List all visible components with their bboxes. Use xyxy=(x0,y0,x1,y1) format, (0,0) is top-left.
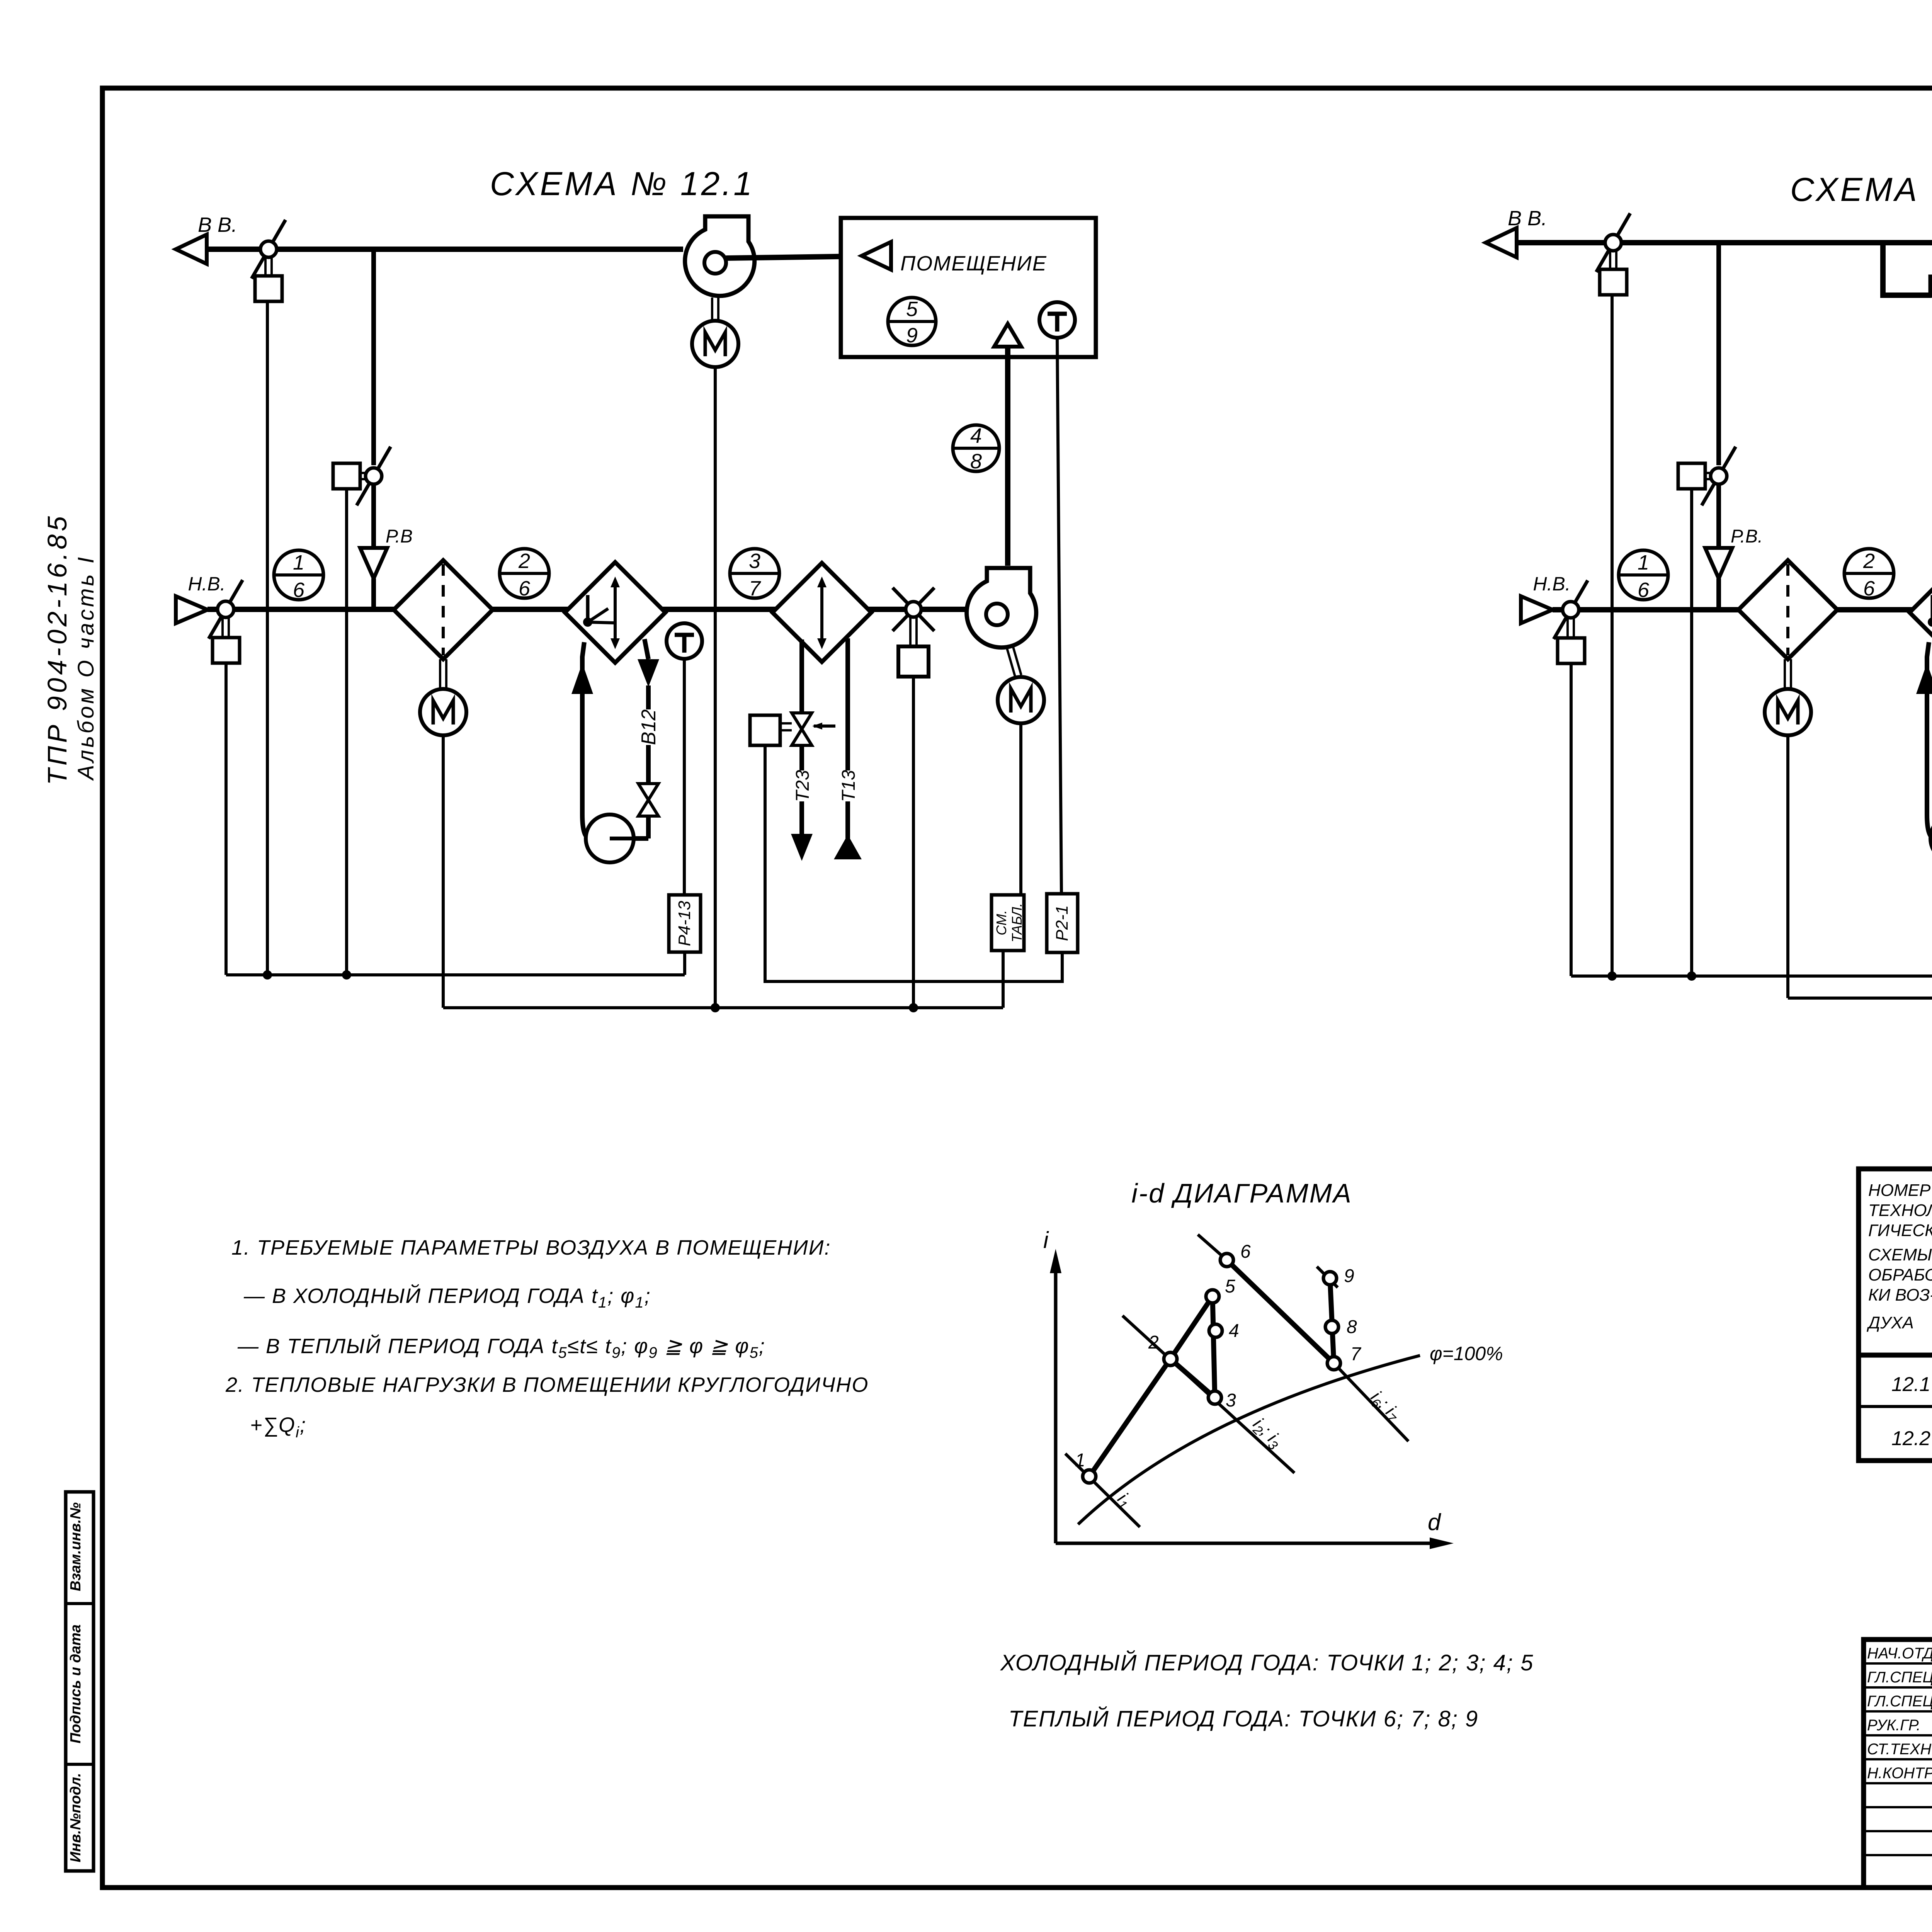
heater diamond ВН1 xyxy=(565,562,665,663)
actuator box of Р.В. damper xyxy=(1678,463,1705,489)
damper on Н.В. inlet xyxy=(1554,580,1588,639)
point 1 xyxy=(1083,1470,1096,1483)
node point 4/8 xyxy=(953,424,999,473)
sensor Т after heater xyxy=(667,623,702,659)
process line 1-2 xyxy=(1089,1359,1170,1476)
svg-text:6: 6 xyxy=(519,577,531,600)
svg-text:4: 4 xyxy=(1229,1321,1239,1341)
svg-text:5: 5 xyxy=(906,298,918,321)
filter diamond Ф2 xyxy=(1738,560,1837,659)
svg-text:ПОМЕЩЕНИЕ: ПОМЕЩЕНИЕ xyxy=(900,252,1047,275)
isotherm through 6-7 extension xyxy=(1334,1363,1408,1441)
svg-text:9: 9 xyxy=(906,324,918,347)
pipe cooler Т13 xyxy=(845,638,850,770)
svg-text:СТ.ТЕХН.: СТ.ТЕХН. xyxy=(1867,1741,1932,1758)
wire СМ.ТАБЛ to bus Y2 xyxy=(1002,951,1005,1008)
actuator box of Н.В. damper xyxy=(1558,638,1585,663)
cooler diamond ВО1 xyxy=(772,563,871,662)
svg-text:СМ.: СМ. xyxy=(993,910,1009,935)
wire main supply duct Н.В. xyxy=(1553,607,1932,612)
room supply grille triangle xyxy=(994,324,1021,347)
svg-text:В12: В12 xyxy=(638,709,660,745)
svg-text:ГИЧЕСКОЙ: ГИЧЕСКОЙ xyxy=(1868,1220,1932,1240)
motor М of filter drive xyxy=(420,689,466,735)
process line 6-7 xyxy=(1227,1260,1334,1363)
svg-text:КИ ВОЗ-: КИ ВОЗ- xyxy=(1868,1286,1932,1304)
svg-text:8: 8 xyxy=(1347,1317,1357,1337)
wire Р4-13 to bus Y1 xyxy=(683,952,686,975)
pump of heater circuit xyxy=(586,815,634,862)
svg-text:i-d ДИАГРАММА: i-d ДИАГРАММА xyxy=(1131,1178,1352,1208)
svg-text:3: 3 xyxy=(1226,1390,1236,1411)
svg-text:— В ХОЛОДНЫЙ ПЕРИОД ГОДА t1;: — В ХОЛОДНЫЙ ПЕРИОД ГОДА t1; φ1; xyxy=(243,1284,651,1311)
Р.В. outlet triangle xyxy=(360,548,387,578)
pipe cooler Т23 xyxy=(799,639,804,713)
box Р2-1 xyxy=(1047,894,1078,952)
tick through 9 xyxy=(1317,1267,1338,1287)
curve phi=100% xyxy=(1078,1355,1420,1524)
axis i xyxy=(1054,1267,1058,1543)
point 9 xyxy=(1323,1272,1337,1285)
wire bus Y1 xyxy=(226,973,685,976)
svg-text:1: 1 xyxy=(1075,1450,1085,1471)
svg-text:ХОЛОДНЫЙ ПЕРИОД ГОДА: ТОЧКИ: ХОЛОДНЫЙ ПЕРИОД ГОДА: ТОЧКИ 1; 2; 3; 4; … xyxy=(1000,1650,1534,1675)
svg-text:ГЛ.СПЕЦ: ГЛ.СПЕЦ xyxy=(1867,1669,1932,1686)
actuator box of supply damper xyxy=(898,646,929,677)
point 6 xyxy=(1220,1253,1233,1267)
svg-text:ТПР 904-02-16.85: ТПР 904-02-16.85 xyxy=(42,513,72,785)
wire supply duct to room xyxy=(1005,347,1010,566)
wire exhaust duct В.В. xyxy=(1517,240,1932,245)
node point 2/6 xyxy=(500,549,549,600)
svg-text:ГЛ.СПЕЦ.: ГЛ.СПЕЦ. xyxy=(1867,1693,1932,1710)
wire supply fan motor to СМ.ТАБЛ xyxy=(1019,723,1022,895)
pipe heater supply xyxy=(1927,642,1932,838)
svg-text:7: 7 xyxy=(749,577,761,600)
svg-text:2. ТЕПЛОВЫЕ НАГРУЗКИ В ПО: 2. ТЕПЛОВЫЕ НАГРУЗКИ В ПОМЕЩЕНИИ КРУГЛОГ… xyxy=(225,1373,869,1396)
svg-text:Р2-1: Р2-1 xyxy=(1053,905,1071,941)
wire from Н.В. damper box to bus xyxy=(224,663,228,975)
process line 2-5 xyxy=(1170,1296,1213,1359)
svg-text:ОБРАБОТ-: ОБРАБОТ- xyxy=(1868,1265,1932,1284)
damper on Н.В. inlet xyxy=(209,580,243,639)
svg-text:Н.В.: Н.В. xyxy=(1533,573,1570,595)
valve on В12 pipe xyxy=(638,784,658,816)
pipe heater supply xyxy=(582,642,590,838)
node point 1/6 xyxy=(274,550,323,602)
point 8 xyxy=(1325,1320,1338,1333)
svg-text:СХЕМА № 12.1: СХЕМА № 12.1 xyxy=(490,165,754,202)
actuator box of В.В. damper xyxy=(255,276,282,301)
box Р4-13 xyxy=(669,895,701,952)
wire from Н.В. damper box to bus xyxy=(1570,663,1573,976)
svg-text:ТЕПЛЫЙ ПЕРИОД ГОДА: ТОЧКИ: ТЕПЛЫЙ ПЕРИОД ГОДА: ТОЧКИ 6; 7; 8; 9 xyxy=(1009,1706,1478,1731)
Р.В. outlet triangle xyxy=(1705,548,1732,578)
exhaust outlet arrow В.В. xyxy=(176,235,207,264)
svg-text:Р.В.: Р.В. xyxy=(1731,526,1763,547)
exhaust fan В6 lower xyxy=(1930,277,1932,351)
actuator box of В.В. damper xyxy=(1600,269,1627,295)
point 5 xyxy=(1206,1290,1219,1303)
wire main supply duct Н.В. xyxy=(207,607,986,612)
svg-text:3: 3 xyxy=(749,549,760,573)
point 4 xyxy=(1209,1324,1222,1337)
svg-text:Р.В: Р.В xyxy=(386,526,413,547)
wire valve box to Р2-1 return xyxy=(765,745,1062,981)
damper on Р.В. branch xyxy=(1702,447,1736,505)
fresh air inlet arrow Н.В. xyxy=(1521,596,1553,623)
svg-text:Инв.№подл.: Инв.№подл. xyxy=(68,1773,84,1862)
damper before supply fan xyxy=(893,588,934,631)
svg-text:1: 1 xyxy=(1638,551,1649,574)
wire room Т to Р2-1 xyxy=(1057,338,1061,894)
svg-text:6: 6 xyxy=(293,578,305,602)
wire filter motor to bus Y2 xyxy=(1786,735,1789,998)
title block frame xyxy=(1864,1639,1932,1888)
svg-text:Н.В.: Н.В. xyxy=(188,573,225,595)
svg-text:1. ТРЕБУЕМЫЕ ПАРАМЕТРЫ ВОЗДУ: 1. ТРЕБУЕМЫЕ ПАРАМЕТРЫ ВОЗДУХА В ПОМЕЩЕН… xyxy=(231,1236,831,1259)
point 2 xyxy=(1164,1352,1177,1366)
point 3 xyxy=(1208,1391,1221,1404)
table frame xyxy=(1859,1169,1932,1461)
svg-text:i: i xyxy=(1043,1227,1049,1253)
svg-text:6: 6 xyxy=(1240,1242,1251,1262)
wire from Р.В. damper box to bus xyxy=(345,489,348,975)
svg-text:Альбом О часть I: Альбом О часть I xyxy=(73,555,99,781)
motor М of exhaust fan xyxy=(692,321,738,367)
wire Р.В. branch lower xyxy=(1716,484,1721,548)
svg-text:ДУХА: ДУХА xyxy=(1866,1313,1914,1332)
box СМ.ТАБЛ xyxy=(992,895,1024,951)
svg-text:4: 4 xyxy=(970,424,982,447)
svg-text:НАЧ.ОТД: НАЧ.ОТД xyxy=(1867,1645,1932,1662)
svg-text:Т13: Т13 xyxy=(838,770,859,802)
junction dots bus Y1 xyxy=(1607,971,1617,981)
wire exhaust duct В.В. xyxy=(207,247,683,252)
pump of heater circuit xyxy=(1930,815,1932,862)
signature rows xyxy=(1864,1663,1932,1855)
actuator box of Н.В. damper xyxy=(213,638,240,663)
isotherm through 2-3 xyxy=(1122,1316,1294,1473)
left edge stamp boxes xyxy=(66,1492,94,1871)
exhaust fan В2 xyxy=(685,216,755,296)
svg-text:12.2: 12.2 xyxy=(1891,1427,1930,1450)
svg-text:7: 7 xyxy=(1350,1344,1362,1364)
wire recirculation branch Р.В. xyxy=(1716,243,1721,465)
axis d xyxy=(1056,1542,1434,1545)
wire from В.В. damper box to bus xyxy=(1611,295,1614,976)
wire supply damper box to bus Y2 xyxy=(912,677,915,1008)
node point 2/6 xyxy=(1844,549,1894,600)
title block roles xyxy=(1867,1645,1932,1782)
three-way valve on Т23 xyxy=(792,713,812,745)
process line 7-9 xyxy=(1330,1278,1334,1363)
motor М of filter drive xyxy=(1765,689,1811,735)
svg-text:1: 1 xyxy=(293,551,304,574)
svg-text:d: d xyxy=(1428,1509,1441,1535)
svg-text:Н.КОНТР: Н.КОНТР xyxy=(1867,1765,1932,1782)
exhaust outlet arrow В.В. xyxy=(1486,228,1517,257)
svg-text:СХЕМЫ: СХЕМЫ xyxy=(1868,1245,1932,1264)
process line 2-3 xyxy=(1170,1359,1215,1398)
svg-text:2: 2 xyxy=(1863,549,1875,573)
actuator box of Р.В. damper xyxy=(333,463,360,489)
svg-text:Взам.инв.№: Взам.инв.№ xyxy=(68,1502,84,1591)
svg-text:НОМЕР: НОМЕР xyxy=(1868,1181,1931,1200)
svg-text:9: 9 xyxy=(1344,1266,1354,1286)
svg-text:6: 6 xyxy=(1638,578,1650,602)
actuator box of valve xyxy=(750,715,780,745)
wire bus Y2 xyxy=(443,1006,1003,1009)
filter diamond Ф1 xyxy=(394,560,493,659)
point 7 xyxy=(1327,1357,1340,1370)
damper on В.В. duct xyxy=(252,220,286,279)
node point 1/6 xyxy=(1619,550,1668,602)
wire from Р.В. damper box to bus xyxy=(1690,489,1693,976)
fresh air inlet arrow Н.В. xyxy=(176,596,207,623)
pipe heater return В12 xyxy=(634,836,648,841)
svg-text:6: 6 xyxy=(1863,577,1875,600)
svg-text:2: 2 xyxy=(518,549,530,573)
wire bus Y1 xyxy=(1571,975,1932,978)
wire from В.В. damper box to bus xyxy=(266,301,269,975)
motor М of supply fan xyxy=(998,677,1044,723)
svg-text:РУК.ГР.: РУК.ГР. xyxy=(1867,1717,1920,1734)
svg-text:Р4-13: Р4-13 xyxy=(675,901,694,946)
node point 3/7 xyxy=(730,549,779,600)
svg-text:В В.: В В. xyxy=(198,213,237,236)
svg-text:СХЕМА № 12.2: СХЕМА № 12.2 xyxy=(1790,171,1932,208)
svg-text:Т23: Т23 xyxy=(793,770,813,802)
supply fan В1 xyxy=(967,568,1036,648)
svg-text:— В ТЕПЛЫЙ ПЕРИОД ГОДА t5≤t: — В ТЕПЛЫЙ ПЕРИОД ГОДА t5≤t≤ t9; φ9 ≧ φ … xyxy=(237,1334,765,1361)
wire filter motor to bus xyxy=(442,735,445,1008)
isotherm through 1 xyxy=(1065,1454,1140,1527)
room inlet arrow xyxy=(862,242,891,270)
damper on В.В. duct xyxy=(1596,213,1630,272)
sensor Т in room xyxy=(1039,302,1075,338)
svg-text:ТЕХНОЛО-: ТЕХНОЛО- xyxy=(1868,1201,1932,1220)
svg-text:В В.: В В. xyxy=(1508,207,1547,230)
svg-text:8: 8 xyxy=(970,450,982,473)
svg-text:12.1: 12.1 xyxy=(1891,1373,1930,1396)
junction dots bus Y1 xyxy=(263,970,272,980)
wire Р.В. branch lower xyxy=(371,484,376,548)
room box Помещение xyxy=(841,218,1096,357)
wire В6 inlet from В.В. duct xyxy=(1883,243,1931,295)
wire exhaust fan motor to bus Y2 xyxy=(714,367,717,1008)
svg-text:φ=100%: φ=100% xyxy=(1430,1343,1503,1364)
heater diamond ВН2 xyxy=(1910,562,1932,663)
junction dots bus Y2 xyxy=(711,1003,720,1012)
svg-text:5: 5 xyxy=(1225,1276,1235,1297)
damper on Р.В. branch xyxy=(357,447,391,505)
svg-text:ТАБЛ.: ТАБЛ. xyxy=(1009,903,1025,942)
node point 5/9 xyxy=(888,298,936,347)
svg-text:Подпись и дата: Подпись и дата xyxy=(68,1624,84,1743)
wire bus Y2 xyxy=(1788,997,1932,1000)
wire Т sensor to Р4-13 xyxy=(683,659,686,895)
svg-text:2: 2 xyxy=(1148,1332,1159,1353)
process line 3-5 xyxy=(1213,1296,1215,1398)
wire exhaust fan discharge to room xyxy=(726,256,862,258)
wire recirculation branch Р.В. xyxy=(371,249,376,465)
